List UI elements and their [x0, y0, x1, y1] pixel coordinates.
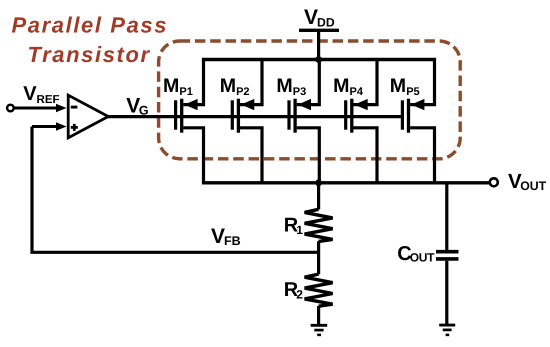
svg-text:P4: P4 [350, 86, 364, 98]
svg-text:P5: P5 [406, 86, 419, 98]
svg-text:M: M [333, 75, 349, 97]
svg-text:Transistor: Transistor [28, 42, 151, 67]
svg-text:M: M [220, 75, 236, 97]
svg-text:P2: P2 [236, 86, 249, 98]
svg-text:P3: P3 [293, 86, 306, 98]
svg-text:M: M [163, 75, 179, 97]
svg-text:M: M [276, 75, 292, 97]
svg-text:Parallel Pass: Parallel Pass [12, 13, 169, 38]
svg-text:P1: P1 [179, 86, 192, 98]
svg-text:M: M [390, 75, 406, 97]
